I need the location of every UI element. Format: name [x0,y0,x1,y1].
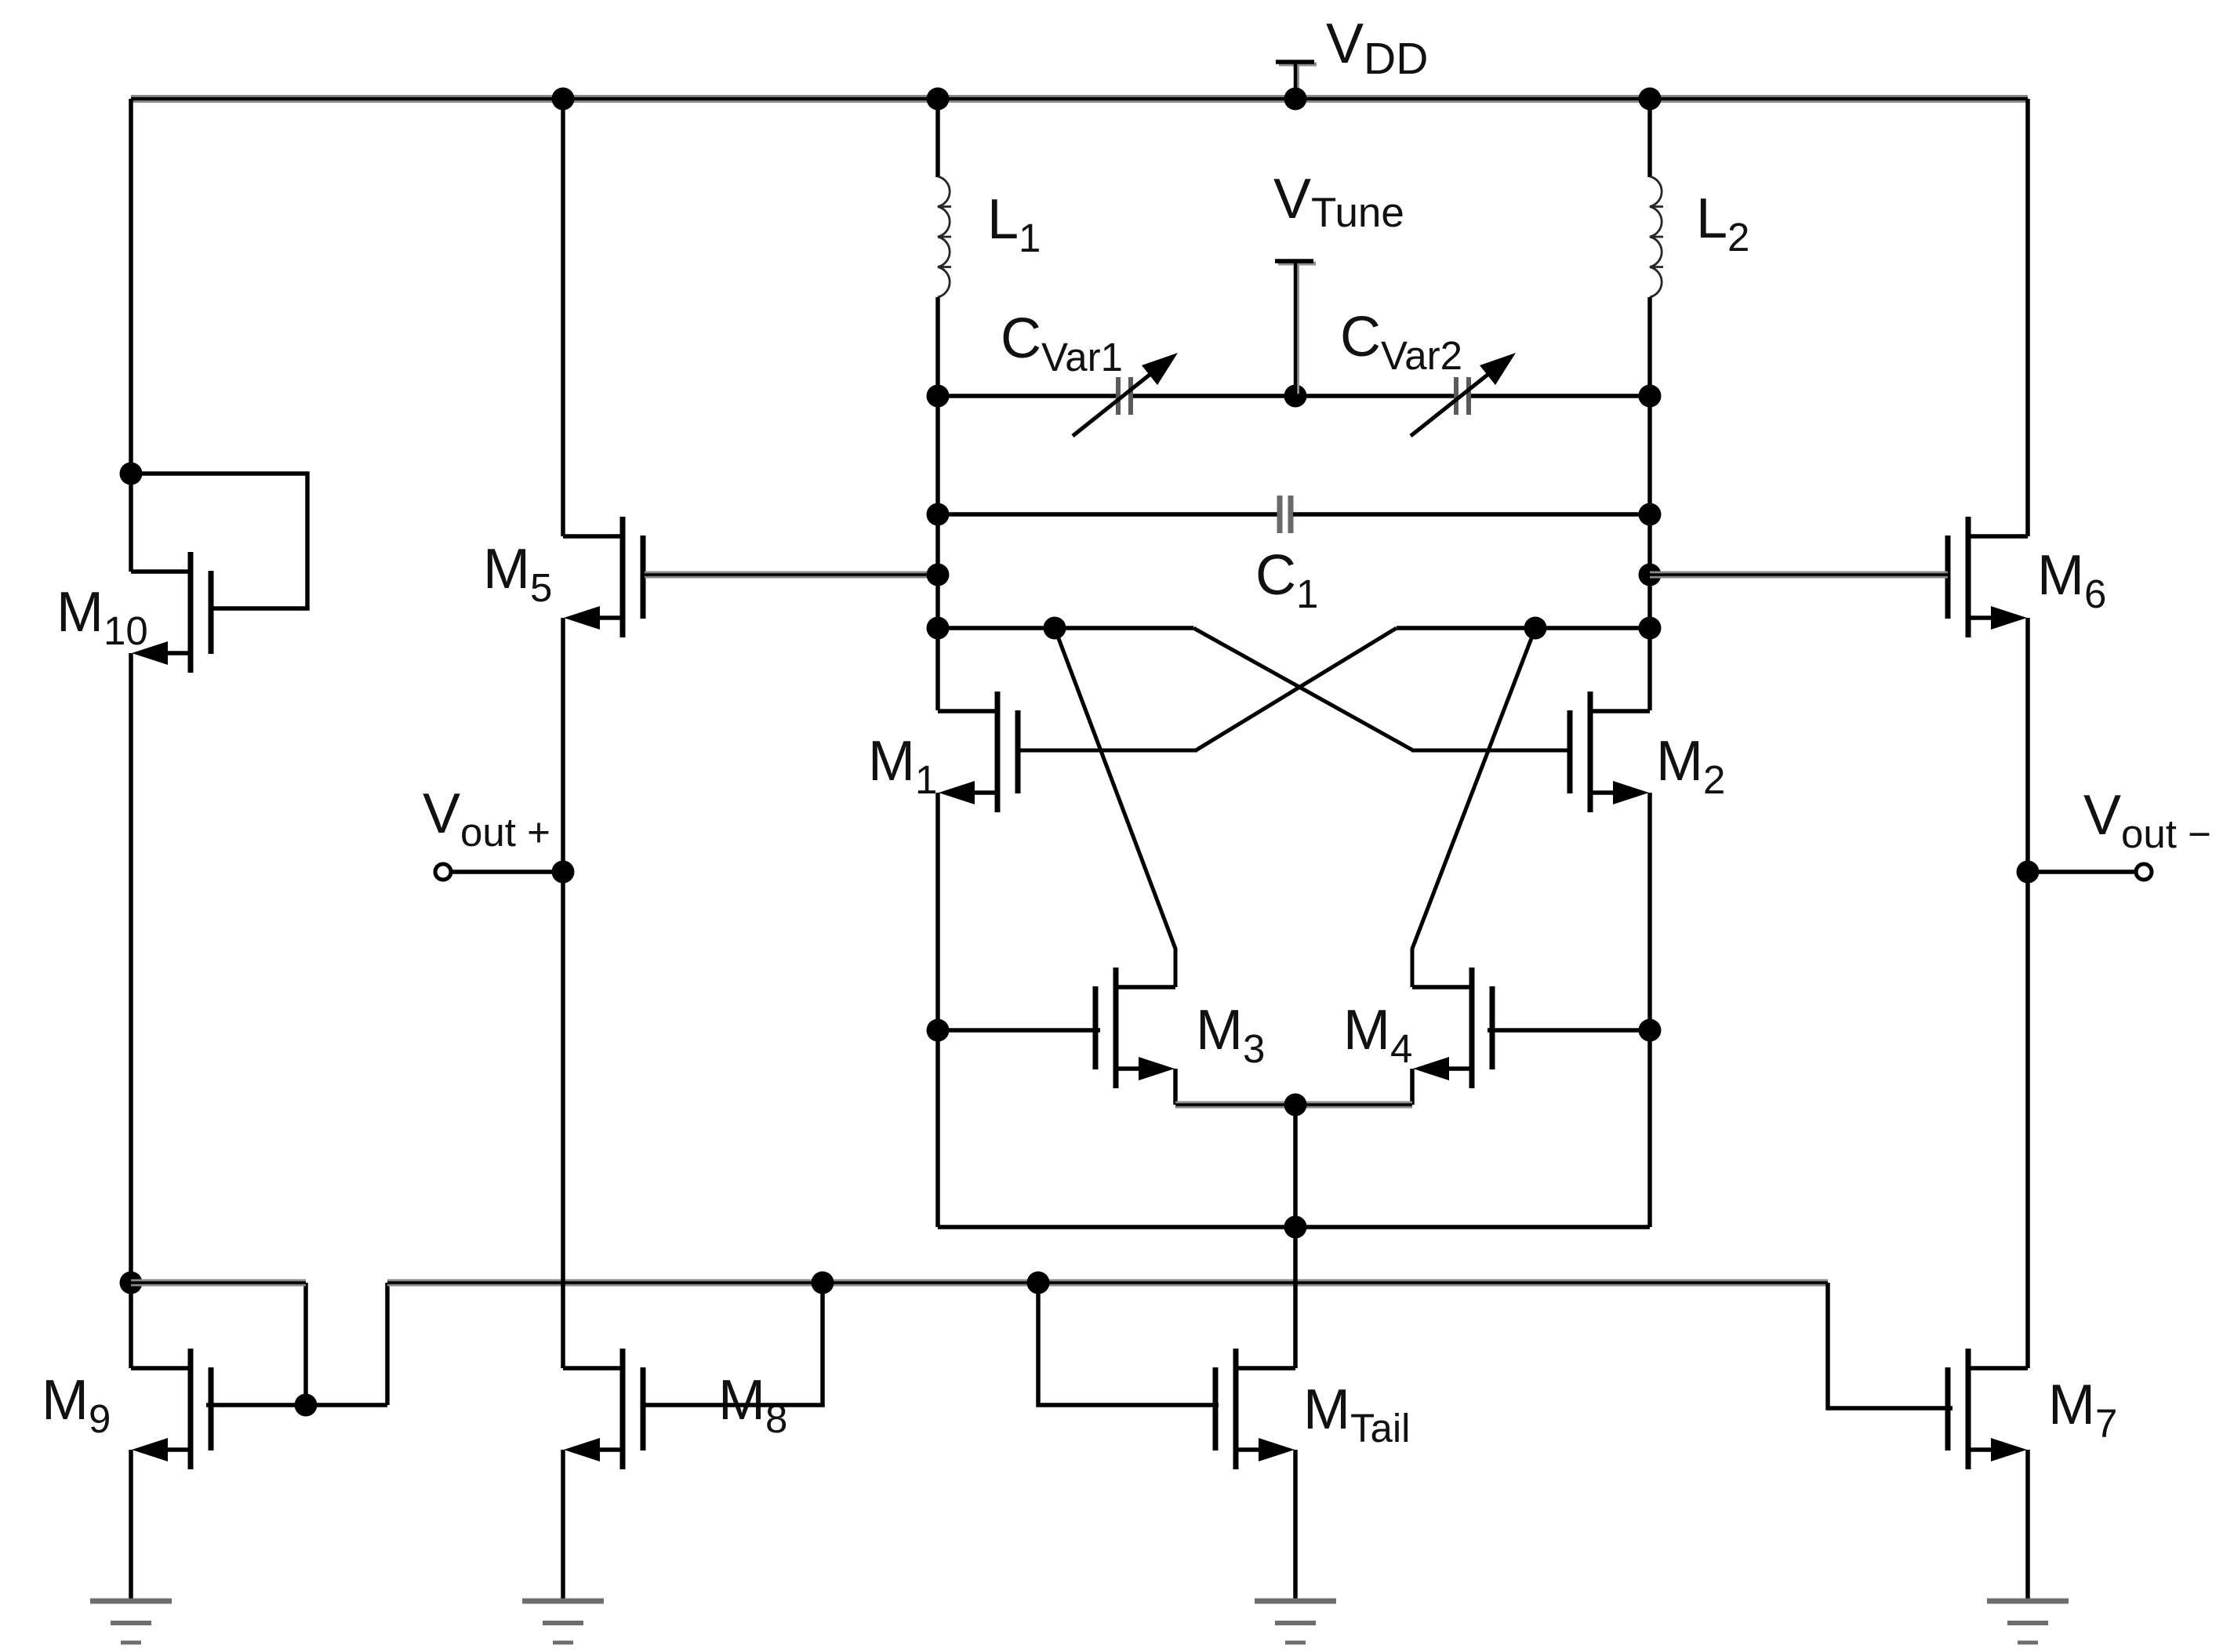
node right tank varactor row [1639,385,1662,408]
node VDD rail junction M5 branch [552,88,575,111]
wire C1 row left [938,512,1277,517]
wire M4 source bend to tail node [1410,1069,1415,1105]
wire varactor row VTune to CVar2 [1295,394,1454,398]
node left tank varactor row [927,385,950,408]
transistor M1 (cross-coupled NMOS, left) [938,692,1018,812]
transistor M10 (diode-connected PMOS-style device) [131,552,211,673]
inductor L1 [938,176,951,297]
wire varactor row right of CVar2 [1471,394,1650,398]
wire M5 source / M8 drain column [561,618,565,1368]
wire M6 source / M7 drain column [2025,618,2030,1368]
wire M7 source to ground [2025,1450,2030,1601]
node left tank M5 gate row [927,564,950,586]
node left tank cross-couple row [927,617,950,640]
wire varactor row left of CVar1 [938,394,1116,398]
wire Vout+ lead [443,870,563,874]
node tail junction of M3/M4 sources [1284,1094,1307,1116]
wire varactor row CVar1 to VTune node [1133,394,1295,398]
node VTune junction [1284,385,1307,408]
wire M9 source to ground [129,1450,133,1601]
node VDD rail junction L2 [1639,88,1662,111]
wire bias detour vertical right [385,1283,390,1405]
inductor L2 [1650,176,1663,297]
transistor M7 (buffer bias NMOS, right) [1948,1349,2028,1469]
wire left tank below L1 [935,297,940,710]
wire bias detour vertical left [303,1283,308,1405]
node tail wire on source join [1284,1216,1307,1239]
wire M1 source down left tank [935,793,940,1227]
wire tail node down to MTail drain [1293,1105,1298,1368]
node M4 gate tap on right tank [1639,1019,1662,1042]
wire M8 source to ground [561,1450,565,1601]
transistor M5 (output buffer device, left) [563,517,643,637]
wire right supply column upper [2025,99,2030,536]
node VDD rail junction VDD stub [1284,88,1307,111]
wire MTail source to ground [1293,1450,1298,1601]
terminal Vout+ open circle [435,864,451,880]
node left tank C1 row [927,503,950,526]
wire M5 drain branch from rail [561,99,565,536]
wire M10 diode-connect loop [131,474,307,608]
wire right tank below L2 [1647,297,1652,710]
node right tank M6 gate row [1639,564,1662,586]
wire M1 gate lead [1016,749,1197,753]
wire M9 gate lead [206,1403,387,1407]
node VDD rail junction L1 [927,88,950,111]
wire M8 gate lead [641,1283,823,1405]
wire M5 gate lead to left tank node [645,572,938,579]
power VDD symbol [1276,62,1317,99]
wire MTail gate lead [1038,1283,1219,1405]
node bias rail to M8 gate [812,1272,834,1294]
wire diagonal right node to M1 gate [1196,628,1397,750]
wire M4 gate lead [1488,1028,1650,1033]
wire diagonal to M3 drain [1055,628,1175,987]
capacitor C1 [1280,496,1291,533]
node bias diode node (M9 drain / rail) [120,1272,143,1294]
transistor MTail (tail current source NMOS) [1215,1349,1295,1469]
ground under MTail [1255,1601,1336,1643]
wire cross-couple row left horizontal [938,626,1193,630]
transistor M2 (cross-coupled NMOS, right) [1570,692,1650,812]
node cross row to M4 drain [1524,617,1547,640]
wire M10 source down to bias node [129,653,133,1283]
wire diagonal left node to M2 gate [1193,628,1413,750]
node bias rail to MTail gate [1027,1272,1050,1294]
wire M3 source bend to tail node [1173,1069,1178,1105]
wire M1-M2 source join row [938,1225,1650,1229]
transistor M9 (bias mirror NMOS) [131,1349,211,1469]
wire diagonal to M4 drain [1412,628,1535,987]
transistor M3 (cross-quad NMOS, inner left) [1095,968,1175,1088]
wire cross-couple row right horizontal [1397,626,1650,630]
ground under M8 [522,1601,604,1643]
source VTune stub [1275,261,1316,396]
node Vout- tap [2017,861,2040,884]
ground under M7 [1987,1601,2069,1643]
node M9 gate junction [295,1394,318,1417]
wire M6 gate lead to right tank node [1650,572,1948,579]
wire C1 row right [1293,512,1650,517]
wire Vout- lead [2028,870,2144,874]
wire VDD top rail [131,95,2028,103]
wire left tank column top [935,99,940,177]
terminal Vout- open circle [2136,864,2152,880]
varactor CVar1 [1073,353,1178,436]
node M3 gate tap on left tank [927,1019,950,1042]
varactor CVar2 [1411,353,1516,436]
wire left supply column upper [129,99,133,572]
wire M3 gate lead [938,1028,1100,1033]
wire M3-M4 source join [1175,1102,1412,1109]
node right tank C1 row [1639,503,1662,526]
node cross row to M3 drain [1044,617,1066,640]
transistor M8 (buffer bias NMOS, left) [563,1349,643,1469]
node Vout+ tap [552,861,575,884]
wire bias rail left segment [131,1280,306,1287]
node M10 drain-gate tie [120,463,143,485]
wire M7 gate lead from bias rail [1828,1283,1952,1408]
wire M2 gate lead [1411,749,1571,753]
wire bias rail main segment [387,1280,1828,1287]
wire M2 source down right tank [1647,793,1652,1227]
wire M9 drain stub [129,1283,133,1368]
ground under M9 [90,1601,172,1643]
wire right tank column top [1647,99,1652,177]
transistor M6 (output buffer device, right) [1948,517,2028,637]
node right tank cross-couple row [1639,617,1662,640]
transistor M4 (cross-quad NMOS, inner right) [1412,968,1492,1088]
